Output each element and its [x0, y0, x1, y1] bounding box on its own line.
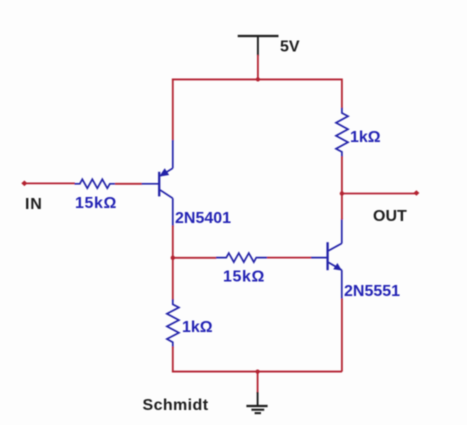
wire right vertical rail to R2 [341, 79, 343, 109]
wire R4 to Q2 base [267, 257, 312, 259]
svg-text:1kΩ: 1kΩ [182, 319, 213, 336]
wire middle node to R4 [173, 257, 217, 259]
wire bottom rail [172, 371, 342, 373]
wire R2 to Q2 collector [341, 156, 343, 219]
svg-text:2N5401: 2N5401 [175, 210, 231, 227]
svg-text:15kΩ: 15kΩ [223, 269, 265, 286]
svg-text:Schmidt: Schmidt [143, 397, 209, 414]
node junction middle left [171, 256, 175, 260]
resistor R1 15k [75, 179, 116, 188]
node OUT port [413, 190, 419, 195]
wire OUT [342, 193, 415, 195]
wire IN to R1 [24, 182, 75, 184]
transistor Q2 2N5551 [311, 219, 342, 300]
wire ground lead [257, 372, 259, 393]
wire Q1 collector down to R3 [172, 226, 174, 301]
ground [246, 392, 267, 413]
resistor R2 1k vertical [336, 108, 348, 157]
transistor Q1 2N5401 [142, 140, 173, 227]
node junction top rail [256, 77, 260, 81]
svg-text:OUT: OUT [373, 208, 407, 225]
wire 5V to top rail [257, 55, 259, 79]
wire top rail [172, 78, 342, 80]
resistor R4 15k [216, 253, 267, 262]
svg-text:IN: IN [25, 196, 43, 213]
node IN port [21, 181, 27, 187]
node junction ground [256, 370, 260, 374]
svg-text:5V: 5V [280, 39, 300, 56]
svg-text:15kΩ: 15kΩ [75, 195, 117, 212]
wire R3 to bottom rail [172, 347, 174, 372]
svg-text:1kΩ: 1kΩ [350, 129, 381, 146]
node junction OUT [340, 191, 344, 195]
svg-text:2N5551: 2N5551 [344, 283, 400, 300]
resistor R3 1k vertical [167, 299, 179, 347]
power 5V symbol [238, 36, 279, 56]
wire Q2 emitter to bottom rail [341, 299, 343, 372]
wire R1 to Q1 base [115, 183, 142, 185]
wire left vertical from rail to Q1 emitter [172, 79, 174, 141]
